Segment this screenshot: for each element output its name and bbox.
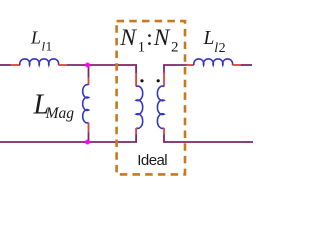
svg-text:Ideal: Ideal [137,152,167,169]
wire: bottom rail right with corner [164,135,253,143]
svg-text:Ll1: Ll1 [30,27,52,53]
wire: L_l1 left lead (red) [11,64,21,66]
transformer secondary winding [157,86,164,128]
wire: right winding top corner [164,65,187,73]
wire: L_Mag top lead (red) [88,78,90,86]
wire: L_Mag bottom stub [88,133,90,143]
node dot bottom (magenta junction) [85,139,91,145]
wire: top rail to transformer corner [67,65,136,73]
wire: L_Mag bottom lead (red) [88,123,90,133]
inductor L_l2 coil [194,59,233,65]
polarity dot secondary [157,79,160,82]
svg-text:N1:N2: N1:N2 [119,25,178,56]
wire: L_l2 right lead (red) [232,64,241,66]
inductor L_Mag coil [83,85,89,123]
wire: left winding bottom lead (red) [135,128,137,135]
wire: top rail right end [241,64,252,66]
wire: left winding top lead (red) [135,73,137,87]
wire: right winding bottom lead (red) [163,128,165,135]
wire: L_l2 left lead (red) [187,64,195,66]
node dot top (magenta junction) [85,62,91,68]
wire: bottom rail left with corner [0,135,136,143]
polarity dot primary [140,79,143,82]
wire: L_l1 right lead (red) [58,64,67,66]
wire: top rail left segment [0,64,11,66]
transformer primary winding [136,86,143,128]
ideal transformer dashed box [117,21,185,174]
wire: right winding top lead (red) [163,73,165,87]
wire: L_Mag top stub [88,65,90,78]
svg-text:LMag: LMag [33,90,75,123]
svg-text:Ll2: Ll2 [203,28,226,56]
inductor L_l1 coil [20,59,59,65]
